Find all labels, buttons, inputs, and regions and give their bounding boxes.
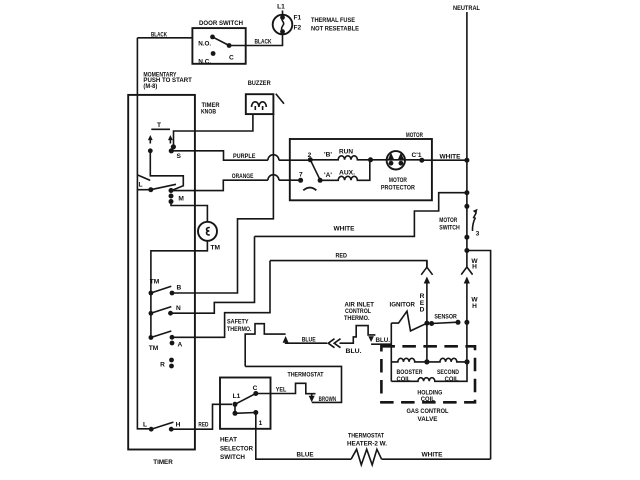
svg-text:GAS CONTROL: GAS CONTROL — [407, 408, 449, 415]
wire junction to protector — [371, 159, 422, 161]
protector contacts — [388, 153, 395, 160]
svg-text:F1: F1 — [294, 15, 302, 22]
svg-text:N.O.: N.O. — [198, 41, 211, 48]
wire B to buzzer drop — [172, 114, 273, 293]
node rail N — [149, 311, 154, 316]
svg-text:BROWN: BROWN — [319, 396, 337, 403]
wire RED bus — [270, 261, 427, 268]
wire black to L contact — [137, 189, 148, 191]
svg-text:3: 3 — [476, 230, 480, 237]
heat selector switch box — [220, 378, 271, 429]
wire WHITE bottom — [382, 458, 491, 460]
svg-text:VALVE: VALVE — [418, 416, 439, 423]
svg-text:L: L — [143, 422, 147, 429]
svg-text:BOOSTER: BOOSTER — [397, 369, 423, 376]
node L1 heat selector — [233, 402, 238, 407]
svg-text:SWITCH: SWITCH — [439, 224, 460, 231]
timer box — [128, 95, 195, 450]
wire RED H to heat selector — [171, 404, 232, 429]
svg-text:BUZZER: BUZZER — [248, 80, 271, 87]
wire M contact to timer motor TM — [171, 202, 207, 222]
wire brown loop to safety thermo — [245, 366, 341, 402]
svg-text:1: 1 — [259, 420, 263, 427]
ignitor zigzag — [391, 311, 427, 331]
svg-text:T: T — [157, 122, 161, 129]
wire motor switch to right bus — [467, 251, 491, 460]
svg-text:MOTOR: MOTOR — [439, 217, 457, 224]
switch blade L to M — [151, 184, 176, 189]
node C heat selector — [253, 391, 258, 396]
switch blade L-H — [151, 422, 173, 429]
svg-text:TIMER: TIMER — [153, 459, 173, 466]
connector RED male arrow — [424, 277, 430, 284]
booster coil — [391, 358, 427, 362]
switch blade B — [151, 286, 171, 293]
svg-text:PURPLE: PURPLE — [233, 153, 256, 160]
svg-text:HEAT: HEAT — [220, 437, 237, 444]
svg-text:SWITCH: SWITCH — [220, 454, 245, 461]
node L start contact — [148, 187, 153, 192]
svg-text:B: B — [177, 285, 182, 292]
svg-text:RED: RED — [198, 421, 208, 428]
node M contact — [169, 188, 174, 193]
motor switch arrow 4 — [473, 213, 476, 219]
svg-text:HEATER-2 W.: HEATER-2 W. — [347, 441, 387, 448]
svg-text:MOTOR: MOTOR — [389, 177, 407, 184]
node N.C. door switch — [211, 51, 216, 56]
buzzer coil — [252, 102, 267, 107]
connector WH female chevron — [461, 267, 472, 275]
node second junction — [464, 359, 469, 364]
ignitor left rail — [390, 323, 392, 381]
svg-text:ORANGE: ORANGE — [232, 173, 254, 180]
svg-text:L: L — [138, 182, 142, 189]
wire cam contact down to start switch — [150, 151, 183, 191]
svg-text:BLU.: BLU. — [376, 337, 391, 344]
wire ORANGE M to motor pin 7 — [171, 180, 268, 190]
svg-text:SENSOR: SENSOR — [434, 314, 457, 321]
svg-text:H: H — [176, 422, 181, 429]
node N.O. door switch — [210, 35, 215, 40]
node B terminal — [170, 291, 175, 296]
blade L1 to C — [235, 394, 256, 405]
node H terminal — [169, 427, 174, 432]
node left cam contact — [148, 148, 153, 153]
svg-text:PROTECTOR: PROTECTOR — [381, 184, 415, 191]
svg-text:RED: RED — [335, 253, 347, 260]
svg-text:TM: TM — [150, 278, 160, 285]
wire red stem into valve — [426, 323, 428, 362]
wire TM back into timer rail — [151, 241, 208, 293]
motor switch nodes — [464, 204, 469, 209]
connector BLU arrow — [368, 336, 374, 342]
motor centrifugal switch blade — [310, 160, 320, 181]
svg-text:IGNITOR: IGNITOR — [390, 302, 416, 309]
wire wh stem into valve — [466, 322, 468, 362]
svg-text:BLUE: BLUE — [302, 336, 316, 343]
svg-text:NEUTRAL: NEUTRAL — [453, 5, 480, 12]
node sensor right — [456, 320, 461, 325]
node run-aux junction — [368, 157, 373, 162]
node rail B — [149, 291, 154, 296]
wire stub L1 to fuse — [282, 11, 284, 15]
switch blade A — [151, 331, 171, 338]
node neutral branch junction — [464, 190, 469, 195]
second coil — [427, 358, 467, 362]
wire neutral vertical — [466, 12, 468, 267]
sensor blade — [432, 322, 458, 323]
connector double chevron — [328, 339, 340, 348]
svg-text:'A': 'A' — [324, 172, 332, 179]
timer motor TM circle — [198, 222, 217, 241]
svg-text:KNOB: KNOB — [201, 109, 216, 116]
svg-text:'B': 'B' — [324, 152, 332, 159]
svg-text:BLUE: BLUE — [297, 452, 315, 459]
wire BLACK door switch to thermal fuse — [229, 34, 282, 45]
wire BLUE heat selector 1 down — [256, 413, 351, 460]
svg-text:WHITE: WHITE — [440, 153, 462, 160]
svg-text:MOTOR: MOTOR — [406, 132, 423, 139]
contact arrow right — [169, 139, 171, 144]
wire black vertical down into timer to L contact — [137, 38, 149, 429]
wire ORANGE hop over buzzer wire — [268, 175, 279, 180]
node rail A — [149, 335, 154, 340]
motor switch blade 3 — [472, 218, 475, 232]
node aux terminal A — [318, 178, 323, 183]
wire N to white bus — [171, 236, 255, 313]
switch blade N — [151, 307, 171, 314]
svg-text:H: H — [472, 303, 477, 310]
wire PURPLE to motor pin 2 — [279, 159, 310, 161]
svg-text:RUN: RUN — [339, 149, 353, 156]
wire WHITE bus to motor switch — [255, 193, 467, 237]
svg-text:C'1: C'1 — [412, 152, 422, 159]
holding coil — [391, 362, 467, 381]
switch blade door switch — [213, 37, 230, 46]
node C door switch — [227, 43, 232, 48]
wire S to purple — [172, 151, 268, 160]
svg-text:THERMOSTAT: THERMOSTAT — [288, 371, 324, 378]
node red-ignitor junction — [424, 321, 429, 326]
svg-text:BLACK: BLACK — [255, 39, 272, 46]
buzzer corner tick — [276, 94, 284, 104]
svg-text:COIL: COIL — [421, 396, 435, 403]
svg-text:L1: L1 — [277, 4, 285, 11]
wire PURPLE hop over buzzer wire — [268, 155, 279, 160]
svg-text:SAFETY: SAFETY — [227, 318, 249, 325]
svg-text:R: R — [160, 362, 165, 369]
svg-text:TM: TM — [211, 245, 221, 252]
wire blue to air inlet thermo — [340, 326, 376, 344]
svg-text:THERMO.: THERMO. — [227, 326, 252, 333]
connector WH male arrow — [464, 277, 470, 284]
svg-text:2: 2 — [308, 152, 312, 159]
svg-text:NOT RESETABLE: NOT RESETABLE — [311, 26, 360, 33]
svg-text:WHITE: WHITE — [422, 452, 444, 459]
svg-text:A: A — [178, 342, 183, 349]
svg-text:WHITE: WHITE — [334, 225, 356, 232]
blade L1 to 1 — [235, 412, 256, 415]
svg-text:THERMO.: THERMO. — [344, 315, 370, 322]
motor protector circle — [387, 151, 405, 169]
wire S to buzzer — [174, 115, 253, 147]
timer rail — [150, 293, 152, 338]
buzzer box — [246, 94, 274, 114]
motor box — [290, 139, 432, 200]
thermostat heater zigzag — [351, 449, 382, 465]
aux winding coil — [320, 160, 370, 181]
svg-text:C: C — [253, 385, 258, 392]
node R terminal unused — [169, 358, 174, 363]
node motor pin 2 — [308, 157, 313, 162]
wire BLACK from timer to door switch — [137, 37, 192, 39]
wire WHITE motor to neutral — [422, 159, 467, 161]
svg-text:H: H — [472, 264, 477, 271]
node motor pin 7 — [298, 178, 303, 183]
svg-text:SELECTOR: SELECTOR — [220, 445, 253, 452]
wire YEL C to thermostat — [256, 383, 316, 393]
connector BROWN arrow down — [311, 394, 313, 398]
door switch DS1 box — [192, 28, 245, 64]
run winding coil — [310, 156, 370, 160]
svg-text:L1: L1 — [233, 393, 241, 400]
node neutral-white junction — [464, 158, 469, 163]
momentary lever — [137, 175, 150, 181]
contact arrow left — [149, 139, 151, 144]
safety thermostat — [245, 324, 285, 367]
svg-text:N.C.: N.C. — [198, 59, 211, 66]
svg-text:(M-8): (M-8) — [143, 83, 157, 90]
svg-text:7: 7 — [299, 172, 303, 179]
svg-text:N: N — [176, 305, 181, 312]
svg-text:AUX.: AUX. — [339, 170, 355, 177]
svg-text:S: S — [177, 153, 182, 160]
svg-text:SECOND: SECOND — [437, 369, 459, 376]
svg-text:C: C — [229, 55, 234, 62]
wire A to red bus — [172, 261, 270, 338]
node S contact — [171, 144, 176, 149]
node L timer low — [149, 427, 154, 432]
svg-text:TM: TM — [149, 345, 159, 352]
node booster junction — [424, 359, 429, 364]
connector BLUE male arrow up — [283, 336, 289, 343]
svg-text:D: D — [420, 307, 425, 314]
gas control valve dashed box — [381, 346, 475, 402]
svg-text:BLACK: BLACK — [151, 32, 167, 39]
node N terminal — [168, 311, 173, 316]
svg-text:F2: F2 — [294, 25, 302, 32]
svg-text:THERMAL FUSE: THERMAL FUSE — [311, 17, 356, 24]
svg-text:M: M — [178, 195, 184, 202]
svg-text:YEL: YEL — [276, 386, 287, 393]
actuator arc — [303, 188, 316, 191]
svg-text:THERMOSTAT: THERMOSTAT — [348, 432, 384, 439]
node C-1 terminal — [419, 158, 424, 163]
svg-text:BLU.: BLU. — [346, 348, 362, 355]
connector RED female chevron — [421, 261, 432, 275]
thermal fuse F1-F2 circle — [273, 15, 293, 35]
svg-text:DOOR SWITCH: DOOR SWITCH — [199, 20, 243, 27]
node A terminal — [170, 335, 175, 340]
node 1 heat selector — [253, 410, 258, 415]
